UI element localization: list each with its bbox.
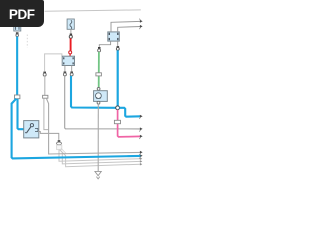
ghost connector (faded) <box>57 145 66 153</box>
wire: gray from SW1 right pin to ghost connector <box>38 132 59 140</box>
relay bottom-right terminal <box>71 66 73 72</box>
ghost wire 3 <box>60 150 140 167</box>
wire: light gray from relay left pin around to connector C2 <box>45 54 62 72</box>
wire: gray relay-left down then right bus to arrow <box>65 76 141 129</box>
wire: gray motor down to ground <box>97 104 99 171</box>
wire: red fuse to relay <box>70 38 72 50</box>
motor bottom terminal circle <box>97 101 100 104</box>
motor M1 <box>94 91 108 102</box>
wire: cyan junction right, step down, to arrow <box>120 108 141 117</box>
red terminal circle at relay <box>69 51 72 54</box>
cyan terminal cap <box>117 46 120 48</box>
PDF badge <box>0 0 44 27</box>
terminal arrow (pink 136.4) <box>139 135 142 139</box>
splice S3 on green <box>96 73 102 76</box>
wire: gray U1 pin2 up and right to terminal <box>118 27 141 32</box>
wire: cyan branch A (splice to bottom-left corner, then blue bus) <box>12 99 141 159</box>
switch SW1 (key switch box) <box>24 121 39 138</box>
terminal circle J1 <box>16 34 19 37</box>
ECU box U1 (top right) <box>108 32 120 41</box>
terminal arrow (ghost 164.2) <box>140 163 142 166</box>
ghost wire 1 <box>59 150 140 162</box>
wire: cyan branch B (splice down to switch box) <box>18 99 24 130</box>
terminal arrow (cyan 116.3) <box>139 115 142 119</box>
terminal ellipse <box>57 142 62 145</box>
wire: U1 bottom-right pin stub to cyan terminal <box>117 41 119 46</box>
terminal cap below J1 <box>16 32 19 34</box>
terminal arrow (top wire 2) <box>139 25 142 29</box>
green terminal cap <box>98 47 101 49</box>
dotted hint line <box>26 35 28 48</box>
terminal arrow (top wire 1) <box>139 19 142 23</box>
relay R1 <box>62 56 74 65</box>
wire: U1 bottom-left pin to green terminal <box>99 41 110 47</box>
wire: gray C2 down to splice S2 <box>44 76 46 95</box>
wire: gray S2 branch straight down then joining right <box>44 98 49 129</box>
motor top terminal circle <box>97 88 100 91</box>
terminal cap C2 <box>43 72 46 74</box>
fuse terminal circle <box>69 35 72 38</box>
terminal cap above ghost connector <box>58 140 61 142</box>
wire: gray S2 diagonal branch down to gray bus <box>46 98 140 154</box>
fuse bottom stub <box>70 29 72 33</box>
wire: green down to motor <box>98 52 100 88</box>
wire: cyan down to junction <box>117 50 119 106</box>
terminal arrow (gray bus 152.4) <box>139 151 142 155</box>
terminal arrow (ghost 161.4) <box>140 160 142 163</box>
ground <box>95 171 101 179</box>
splice S2 <box>43 95 48 98</box>
splice S4 on pink <box>114 120 120 123</box>
ghost wire 2 <box>60 150 141 164</box>
wire: cyan main feed (J1 down to splice S1) <box>16 37 18 95</box>
terminal arrow (blue bus 155.9) <box>139 154 142 158</box>
fuse terminal cap <box>70 34 72 36</box>
wire: cyan relay-right down then right to junction <box>71 76 116 108</box>
wire: gray U1 pin1 up and right to terminal <box>111 21 140 32</box>
terminal arrow (gray bus 128.2) <box>139 127 142 131</box>
relay bottom-left terminal <box>64 66 66 72</box>
junction node <box>116 106 120 110</box>
connector J1 (top-left, partly under PDF badge) <box>14 25 21 31</box>
terminal circle C2 <box>43 73 46 76</box>
splice S1 <box>15 95 20 99</box>
red stub into relay <box>69 54 71 56</box>
wire: pink junction down, corner, right to arrow <box>118 110 141 137</box>
header separator line <box>45 10 141 11</box>
green terminal circle <box>98 49 101 52</box>
terminal arrow (ghost 158.7) <box>140 157 142 160</box>
fuse F1 <box>67 19 74 29</box>
cyan terminal circle <box>116 47 119 50</box>
